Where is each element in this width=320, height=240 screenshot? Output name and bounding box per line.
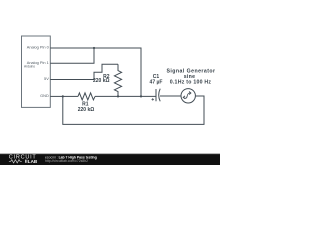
signal generator circle (181, 89, 195, 103)
wire C1 to generator (160, 95, 181, 97)
junction node pin0/pin1 (93, 47, 95, 49)
junction node R2 bottom (117, 95, 119, 97)
signal generator sine-arrow glyph (183, 93, 190, 98)
wire GND (50, 95, 63, 97)
svg-text:0.1Hz to 100 Hz: 0.1Hz to 100 Hz (170, 79, 212, 85)
wire Analog Pin 1 (50, 48, 94, 63)
svg-text:GND: GND (40, 93, 49, 98)
Arduino box (22, 36, 51, 107)
wire Analog Pin 0 (50, 48, 141, 96)
svg-text:Arduino: Arduino (24, 64, 35, 68)
capacitor C1 right plate (curved) (159, 89, 161, 102)
CircuitLab logo resistor zigzag (9, 160, 22, 163)
wire 5V staircase to R2 top (50, 64, 118, 79)
svg-text:LAB: LAB (28, 159, 38, 164)
resistor R2 (114, 64, 121, 96)
svg-text:220 kΩ: 220 kΩ (93, 78, 110, 84)
wire R1 to C1 node and C1 left plate (95, 95, 156, 97)
svg-text:47 µF: 47 µF (150, 80, 163, 86)
svg-text:Analog Pin 0: Analog Pin 0 (27, 44, 50, 49)
junction node C1 left (140, 95, 142, 97)
capacitor C1 left plate (155, 89, 157, 101)
junction node GND (62, 95, 64, 97)
wire GND junction down and bottom rail to generator (63, 96, 204, 124)
resistor R1 (78, 93, 95, 100)
svg-text:5V: 5V (44, 76, 49, 81)
capacitor plus sign (152, 98, 155, 101)
CircuitLab logo capacitor mark (24, 160, 27, 163)
svg-text:http://circuitlab.com/c72s8b2: http://circuitlab.com/c72s8b2 (45, 159, 88, 163)
footer bar (0, 154, 220, 165)
svg-text:220 kΩ: 220 kΩ (78, 107, 95, 113)
wire R1 left lead (63, 95, 78, 97)
